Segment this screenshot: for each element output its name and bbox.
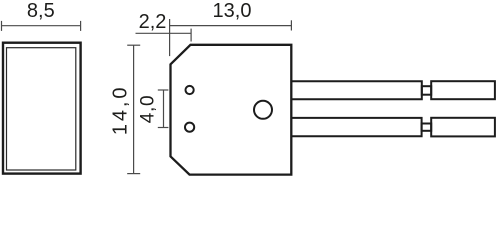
pin 1 tip [431,81,495,99]
pin 1 shaft [292,81,422,99]
dimension 8,5 line [2,21,81,31]
svg-text:13,0: 13,0 [213,0,252,22]
svg-text:8,5: 8,5 [27,0,55,22]
pin 2 neck [422,124,432,131]
svg-text:14,0: 14,0 [109,85,131,136]
side-view box inner line [7,48,76,170]
side-view box outer [3,43,81,174]
lamp body outline [171,45,292,175]
dimension 2,2 line [136,29,192,42]
pin 1 neck [422,86,431,95]
hole lower [185,123,194,132]
svg-text:4,0: 4,0 [138,95,159,124]
hole upper [186,86,194,94]
dimension 14,0 line [127,45,140,173]
dimension 13,0 line [170,19,292,56]
dimension 4,0 line [158,90,169,128]
svg-text:2,2: 2,2 [139,11,167,33]
center hole [254,101,272,119]
pin 2 shaft [292,118,422,136]
pin 2 tip [431,118,495,137]
